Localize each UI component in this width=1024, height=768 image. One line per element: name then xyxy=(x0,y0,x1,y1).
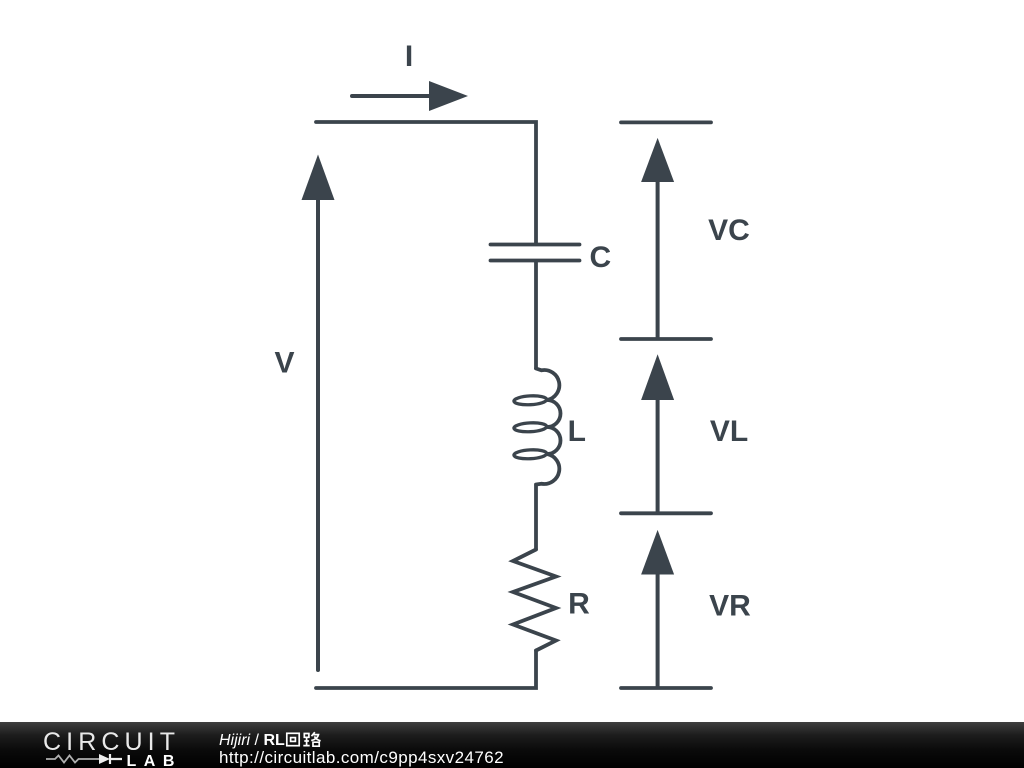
voltage bar top (VC upper) xyxy=(621,121,711,125)
arrowhead V xyxy=(302,155,335,201)
wire: capacitor to inductor xyxy=(534,263,538,369)
CircuitLab logo wordmark CIRCUIT xyxy=(43,730,180,755)
svg-text:VR: VR xyxy=(709,590,751,623)
voltage bar bottom (VR lower) xyxy=(621,686,711,690)
svg-text:LAB: LAB xyxy=(127,753,182,768)
svg-text:VC: VC xyxy=(708,214,750,247)
svg-text:C: C xyxy=(589,241,611,274)
kanji kai (outer box) xyxy=(287,733,299,745)
voltage bar VC/VL xyxy=(621,337,711,341)
svg-text:R: R xyxy=(568,588,590,621)
kanji kai (inner box) xyxy=(290,738,295,742)
logo diode xyxy=(99,754,110,764)
arrowhead VR xyxy=(641,530,674,575)
wire: inductor to resistor xyxy=(534,486,538,550)
svg-text:I: I xyxy=(405,40,413,73)
wire top (node A to capacitor lead) xyxy=(316,122,536,243)
footer title: Hijiri / RL Kai-ro xyxy=(219,731,504,767)
arrowhead I xyxy=(429,81,468,111)
kanji ro (foot radical) xyxy=(303,734,309,746)
arrow V shaft xyxy=(316,198,320,670)
kanji ro (kaku right part) xyxy=(311,732,320,746)
logo resistor zigzag xyxy=(46,756,99,763)
CircuitLab logo squiggle (resistor + diode) and LAB xyxy=(44,750,184,768)
arrowhead VL xyxy=(641,354,674,400)
svg-text:VL: VL xyxy=(710,415,748,448)
capacitor C plates xyxy=(491,245,580,261)
arrow VC shaft xyxy=(656,180,660,337)
voltage bar VL/VR xyxy=(621,511,711,515)
arrow I shaft xyxy=(352,94,432,98)
arrow VR shaft xyxy=(656,572,660,686)
arrow VL shaft xyxy=(656,398,660,512)
inductor L coil bumps xyxy=(536,369,561,485)
resistor R zigzag xyxy=(513,550,556,651)
footer bar xyxy=(0,722,1024,768)
svg-text:V: V xyxy=(274,347,294,380)
svg-text:L: L xyxy=(568,415,586,448)
inductor L loop ellipses xyxy=(514,395,547,460)
arrowhead VC xyxy=(641,138,674,182)
wire: resistor to bottom node and bottom wire xyxy=(316,651,536,689)
